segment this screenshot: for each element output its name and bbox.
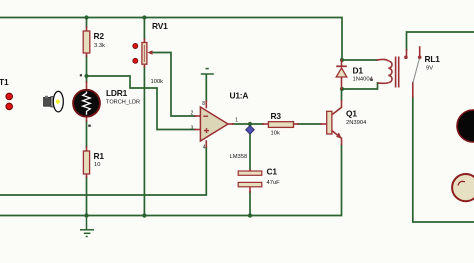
svg-text:LM358: LM358 xyxy=(230,154,248,160)
svg-text:Q1: Q1 xyxy=(346,108,357,118)
svg-text:R2: R2 xyxy=(94,31,105,41)
svg-text:10k: 10k xyxy=(271,131,280,137)
svg-text:RV1: RV1 xyxy=(152,21,168,31)
svg-text:U1:A: U1:A xyxy=(230,91,249,101)
svg-text:RL1: RL1 xyxy=(425,54,441,64)
svg-text:R1: R1 xyxy=(94,151,105,161)
svg-text:100k: 100k xyxy=(151,79,164,85)
svg-text:2N3904: 2N3904 xyxy=(346,120,367,126)
svg-text:TORCH_LDR: TORCH_LDR xyxy=(106,100,140,106)
svg-text:9V: 9V xyxy=(426,65,433,71)
svg-text:3: 3 xyxy=(191,125,194,131)
svg-text:10: 10 xyxy=(94,162,100,168)
svg-text:4: 4 xyxy=(203,145,206,151)
svg-text:C1: C1 xyxy=(267,167,278,177)
svg-text:3.3k: 3.3k xyxy=(94,43,105,49)
svg-text:BT1: BT1 xyxy=(0,77,9,87)
svg-text:R3: R3 xyxy=(271,111,282,121)
svg-text:2: 2 xyxy=(191,111,194,117)
svg-text:8: 8 xyxy=(202,101,205,107)
svg-text:D1: D1 xyxy=(353,65,364,75)
svg-text:LDR1: LDR1 xyxy=(106,88,128,98)
svg-text:47uF: 47uF xyxy=(267,180,281,186)
svg-text:1: 1 xyxy=(235,118,238,124)
